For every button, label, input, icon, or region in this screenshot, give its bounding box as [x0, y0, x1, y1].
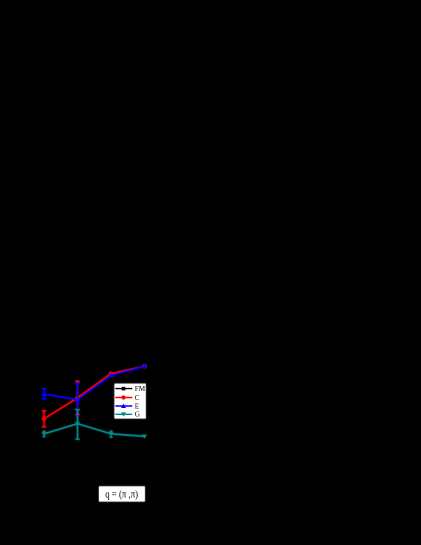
legend box: [115, 384, 146, 419]
series G (teal) polyline: [44, 424, 145, 437]
legend FM sample line: [115, 388, 132, 390]
series C (red) error bar at point 1: [42, 411, 46, 427]
series C (red) polyline: [44, 366, 145, 419]
legend E sample line: [115, 405, 132, 407]
legend E triangle marker: [121, 404, 126, 408]
series G (teal) error bar at point 1: [43, 431, 46, 436]
legend G sample line: [115, 413, 132, 415]
q label box: [99, 486, 145, 501]
svg-text:E: E: [135, 402, 140, 410]
legend G triangle-down marker: [121, 412, 126, 416]
series E (blue) error bar at point 2: [75, 384, 79, 416]
svg-text:FM: FM: [135, 385, 146, 393]
legend C circle marker: [121, 395, 125, 399]
blurred underlayer copy of the whole figure: [41, 364, 147, 502]
series E (blue) polyline: [44, 366, 145, 399]
q label text: [105, 489, 138, 501]
series G (teal) triangle-down markers: [42, 422, 147, 439]
series C (red) circle markers: [42, 364, 147, 421]
svg-text:C: C: [135, 394, 140, 402]
legend FM square marker: [122, 387, 126, 391]
series E (blue) error bar at point 1: [42, 389, 46, 399]
series G (teal) error bar at point 3: [110, 431, 113, 437]
legend C sample line: [115, 397, 132, 399]
series C (red) error bar at point 2: [75, 381, 79, 414]
svg-text:q = (π ,π): q = (π ,π): [105, 489, 138, 501]
series G (teal) error bar at point 2: [75, 410, 79, 440]
series E (blue) triangle-up markers: [41, 364, 147, 402]
svg-text:G: G: [135, 411, 140, 419]
